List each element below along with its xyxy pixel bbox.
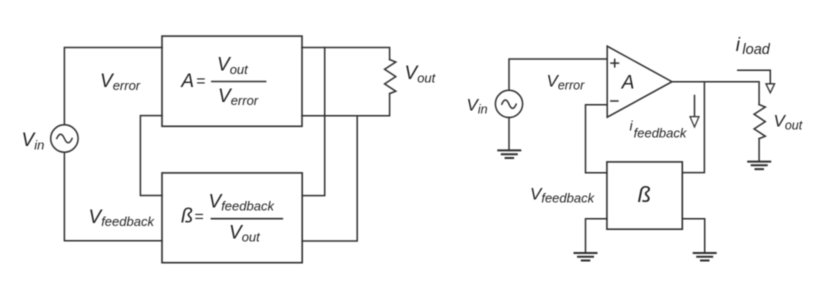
- wire op-amp output to load resistor: [672, 82, 759, 105]
- svg-text:Verror: Verror: [218, 86, 259, 108]
- block beta (left): [162, 173, 302, 263]
- svg-text:Vout: Vout: [774, 111, 803, 132]
- current arrow i_load: [738, 70, 771, 83]
- wire V_in bottom to ground: [508, 118, 510, 151]
- svg-text:ß: ß: [181, 206, 193, 228]
- wire V_in to op-amp + input: [509, 59, 607, 90]
- current arrow i_feedback: [694, 96, 696, 117]
- wire op-amp inverting input to beta: [586, 105, 608, 173]
- svg-text:Vout: Vout: [405, 63, 437, 85]
- source V_in (left): [51, 125, 78, 152]
- ground (lower-right of right beta): [694, 253, 716, 261]
- svg-text:ifeedback: ifeedback: [630, 118, 688, 141]
- fraction bar in block A: [212, 81, 266, 83]
- svg-text:Vfeedback: Vfeedback: [209, 191, 276, 213]
- svg-text:Vfeedback: Vfeedback: [530, 185, 596, 206]
- pin - (inverting): [611, 100, 618, 102]
- wire load bottom return to A block: [302, 94, 390, 116]
- wire A output top to load resistor: [302, 48, 390, 60]
- wire beta lower-left to ground: [586, 219, 607, 253]
- svg-text:Vout: Vout: [229, 222, 261, 244]
- ground (under right V_in): [498, 150, 520, 158]
- ground (lower-left of right beta): [575, 253, 597, 261]
- svg-text:A: A: [621, 73, 635, 94]
- pin + (non-inverting): [611, 59, 619, 67]
- block beta (right): [607, 162, 682, 229]
- svg-text:iload: iload: [736, 35, 771, 58]
- svg-text:Vout: Vout: [217, 55, 249, 77]
- wire feedback loop beta to A (left side): [140, 116, 162, 196]
- wire output feedback tap to beta: [682, 82, 704, 173]
- wire tap output top to beta input (upper): [302, 48, 325, 196]
- wire tap output bottom to beta input (lower): [302, 116, 357, 241]
- ground (under right resistor): [748, 162, 770, 170]
- resistor R_load (left): [385, 60, 396, 94]
- resistor R_load (right): [754, 105, 765, 139]
- source V_in (right): [495, 90, 522, 117]
- svg-text:Verror: Verror: [100, 71, 141, 93]
- op-amp A: [607, 46, 672, 117]
- svg-text:Vfeedback: Vfeedback: [89, 207, 156, 229]
- wire V_in top to A input: [64, 48, 162, 125]
- block A (gain): [162, 36, 302, 126]
- sine symbol (right source): [502, 100, 516, 108]
- svg-text:Vin: Vin: [22, 130, 45, 152]
- svg-text:=: =: [194, 209, 203, 226]
- wire beta lower-right to ground: [682, 219, 704, 253]
- fraction bar in block beta: [211, 218, 282, 220]
- svg-text:Verror: Verror: [547, 72, 586, 93]
- sine symbol (left source): [57, 134, 72, 143]
- svg-text:A: A: [180, 71, 194, 92]
- svg-text:Vin: Vin: [467, 95, 488, 116]
- svg-text:=: =: [196, 73, 205, 90]
- svg-text:ß: ß: [638, 182, 651, 207]
- wire V_in bottom to beta: [64, 152, 162, 241]
- wire resistor to ground: [758, 139, 760, 162]
